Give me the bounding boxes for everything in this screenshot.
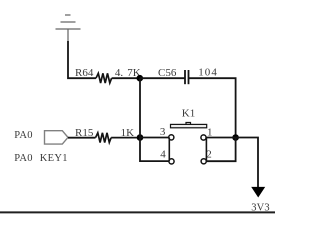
node junction J3 <box>137 134 144 141</box>
svg-text:C56: C56 <box>158 67 177 79</box>
svg-text:R15: R15 <box>75 127 94 139</box>
node junction J2 <box>232 134 239 141</box>
wire <box>111 137 140 139</box>
svg-text:K1: K1 <box>182 108 195 120</box>
svg-text:4.: 4. <box>115 67 124 79</box>
switch K1 <box>171 123 207 128</box>
capacitor C56 <box>185 70 189 84</box>
pin 2 <box>201 159 206 164</box>
wire <box>139 78 141 137</box>
svg-text:4: 4 <box>160 149 166 161</box>
ground <box>56 15 81 41</box>
wire <box>236 138 258 189</box>
wire <box>68 41 96 78</box>
svg-text:PA0: PA0 <box>14 153 33 164</box>
svg-text:KEY1: KEY1 <box>40 153 68 164</box>
wire <box>206 137 236 139</box>
resistor R15 <box>96 133 112 143</box>
sheet border <box>0 211 275 213</box>
wire <box>189 78 236 137</box>
wire <box>140 77 185 79</box>
pin 1 <box>201 135 206 140</box>
port PA0 <box>45 131 69 144</box>
power 3V3 arrow <box>251 187 265 198</box>
pin 4 <box>169 159 174 164</box>
svg-text:R64: R64 <box>75 67 94 79</box>
node junction J1 <box>137 75 144 82</box>
svg-text:3: 3 <box>160 126 166 138</box>
wire <box>112 77 140 79</box>
wire <box>68 137 96 139</box>
wire <box>206 138 235 162</box>
resistor R64 <box>96 73 112 83</box>
wire <box>140 137 169 139</box>
wire <box>205 138 207 162</box>
wire <box>140 138 169 162</box>
wire <box>168 138 170 162</box>
svg-text:104: 104 <box>198 67 218 79</box>
svg-text:PA0: PA0 <box>14 130 33 141</box>
pin 3 <box>169 135 174 140</box>
